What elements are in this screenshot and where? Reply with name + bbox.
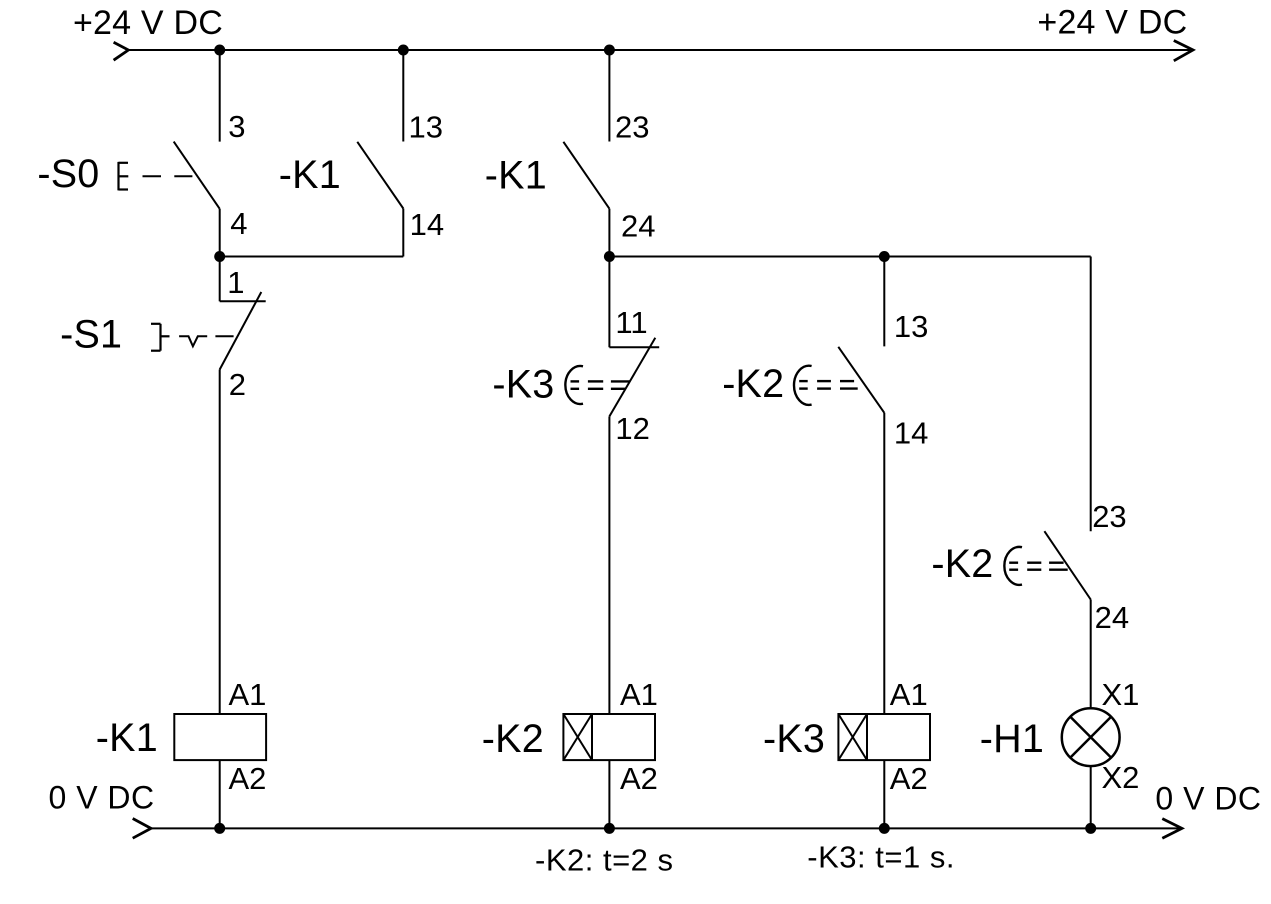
node B junction (604, 251, 615, 262)
S0 actuator E bracket (119, 162, 129, 191)
relay coil K1 (174, 714, 266, 760)
wire right branch down to K2 contact 23 (1090, 257, 1092, 532)
K3 contact time-delay arc (565, 366, 583, 404)
svg-text:24: 24 (1095, 600, 1129, 635)
wire node B to right branch (609, 256, 1090, 258)
node top rail / branch 2 (398, 45, 409, 56)
wire S0 to node A (219, 209, 221, 257)
svg-text:14: 14 (894, 416, 928, 451)
node top rail / branch 3 (604, 45, 615, 56)
K2 contact time-delay dashes (799, 381, 858, 389)
svg-text:-K2: -K2 (722, 362, 784, 406)
wire H1 to 0V rail (1090, 766, 1092, 828)
svg-text:3: 3 (228, 109, 245, 144)
node 0V rail / K1 coil (214, 823, 225, 834)
wire K1 coil to 0V rail (219, 760, 221, 828)
wire K3 coil to 0V rail (883, 760, 885, 828)
contact K2 13-14 NO blade (838, 347, 884, 413)
svg-text:-K2: -K2 (482, 717, 544, 761)
svg-text:A2: A2 (229, 761, 267, 796)
wire +24V top rail (128, 49, 1193, 51)
timer relay coil K3 (838, 714, 930, 760)
node 0V rail / H1 (1085, 823, 1096, 834)
svg-text:13: 13 (894, 309, 928, 344)
svg-text:-K1: -K1 (279, 153, 341, 197)
wire K1 14 down to node A row (402, 209, 404, 257)
K2 23-24 time-delay dashes (1009, 563, 1067, 570)
arrow bottom rail left (133, 819, 151, 839)
svg-text:-K1: -K1 (485, 154, 547, 198)
svg-text:A2: A2 (890, 761, 928, 796)
lamp H1 (1062, 708, 1120, 766)
switch S1 NC contact blade (220, 292, 262, 370)
svg-text:A1: A1 (620, 677, 658, 712)
node 0V rail / K3 coil (879, 823, 890, 834)
wire K2 24 to lamp H1 (1090, 600, 1092, 709)
wire K2 14 to K3 coil (883, 413, 885, 714)
arrow top rail right (1174, 41, 1193, 61)
svg-text:+24 V DC: +24 V DC (73, 4, 223, 42)
svg-text:X2: X2 (1102, 760, 1140, 795)
switch S1 NC contact bar (220, 300, 266, 302)
svg-text:23: 23 (615, 109, 649, 144)
svg-text:1: 1 (227, 265, 244, 300)
contact K2 23-24 NO blade (1044, 531, 1090, 599)
K3 contact time-delay dashes (571, 381, 630, 388)
svg-text:-K2: t=2 s: -K2: t=2 s (535, 843, 674, 878)
svg-text:-K3: t=1 s.: -K3: t=1 s. (807, 840, 955, 875)
svg-text:X1: X1 (1102, 677, 1140, 712)
wire node C down to K2 contact 13 (883, 257, 885, 347)
svg-text:-K3: -K3 (763, 717, 825, 761)
K2 contact time-delay arc (794, 366, 812, 405)
svg-text:0 V DC: 0 V DC (49, 780, 155, 816)
node 0V rail / K2 coil (604, 823, 615, 834)
node C junction branch4 (879, 251, 890, 262)
svg-text:4: 4 (230, 206, 247, 241)
wire node B down to K3 contact (608, 257, 610, 348)
svg-text:0 V DC: 0 V DC (1155, 781, 1261, 817)
wire branch1 top (219, 50, 221, 142)
svg-text:-K2: -K2 (931, 542, 993, 586)
wire node A to K1 contact 14 (220, 256, 404, 258)
wire S1 to K1 coil (219, 370, 221, 715)
wire branch2 top (402, 50, 404, 142)
switch S0 pushbutton NO contact (174, 142, 220, 209)
S1 actuator bracket (151, 324, 170, 351)
contact K1 13-14 NO blade (357, 142, 403, 209)
contact K3 11-12 NC bar (609, 346, 659, 348)
S1 actuator dashed link (215, 335, 233, 337)
wire K3 12 to K2 coil (608, 416, 610, 714)
svg-text:11: 11 (615, 305, 647, 340)
svg-text:+24 V DC: +24 V DC (1037, 3, 1187, 41)
svg-text:A1: A1 (229, 677, 267, 712)
svg-text:23: 23 (1092, 499, 1126, 534)
arrow top rail left (114, 42, 129, 60)
svg-text:-S1: -S1 (60, 313, 122, 357)
S1 actuator spring-return symbol (179, 336, 207, 346)
S0 actuator dashed link (143, 175, 162, 177)
K2 23-24 time-delay arc (1004, 547, 1022, 585)
wire 0V bottom rail (151, 827, 1182, 829)
svg-text:14: 14 (410, 207, 444, 242)
svg-text:12: 12 (615, 411, 649, 446)
wire node A to S1 (219, 257, 221, 302)
svg-text:A2: A2 (620, 761, 658, 796)
timer relay coil K2 (563, 714, 655, 760)
wire K1 24 to node B (608, 209, 610, 257)
svg-text:13: 13 (409, 109, 443, 144)
svg-text:-K3: -K3 (492, 363, 554, 407)
svg-text:-H1: -H1 (980, 717, 1044, 761)
wire branch3 top (608, 50, 610, 142)
svg-text:2: 2 (229, 367, 246, 402)
svg-text:-K1: -K1 (96, 716, 158, 760)
contact K1 23-24 NO blade (563, 142, 609, 209)
node A junction (214, 251, 225, 262)
arrow bottom rail right (1162, 819, 1182, 839)
svg-text:A1: A1 (890, 677, 928, 712)
node top rail / branch 1 (214, 45, 225, 56)
wire K2 coil to 0V rail (608, 760, 610, 828)
svg-text:24: 24 (621, 209, 655, 244)
svg-text:-S0: -S0 (37, 152, 99, 196)
contact K3 11-12 NC blade (609, 338, 655, 417)
